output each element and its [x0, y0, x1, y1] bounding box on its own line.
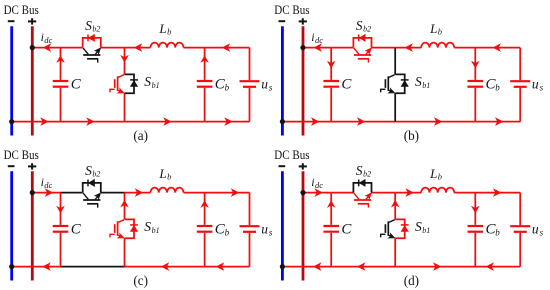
wire: bottom rail C junction to S_b1 junction (a): [61, 121, 125, 123]
label i_dc (c): [41, 175, 53, 190]
switch S_b1: anti-parallel diode loop (d): [395, 219, 408, 238]
label L_b (c): [158, 166, 171, 182]
inductor L_b (d): [421, 188, 454, 193]
current arrow on C_b branch (c): [200, 200, 209, 208]
switch S_b2: anti-parallel diode loop (c): [83, 180, 101, 193]
bus positive terminal mark (d): [299, 163, 307, 169]
svg-text:b1: b1: [422, 226, 430, 235]
current arrow on top rail (a): [134, 43, 143, 52]
svg-text:b: b: [438, 27, 442, 37]
label u_s (c): [261, 222, 273, 238]
voltage source u_s (b): [510, 81, 530, 87]
label S_b2 (d): [356, 163, 371, 179]
wire: top rail L_b to right corner through C_b junction (b): [454, 47, 520, 49]
wire: top rail C junction to S_b2 left corner (c): [61, 192, 83, 194]
svg-text:b: b: [167, 27, 171, 37]
current arrow on C branch (c): [56, 206, 65, 214]
capacitor C (c): [53, 193, 69, 267]
current arrow on C_b branch (b): [471, 61, 480, 69]
svg-text:b1: b1: [152, 81, 160, 90]
current arrow on bottom rail (c): [42, 262, 51, 271]
inductor L_b (a): [151, 43, 184, 48]
wire: bottom rail C junction to S_b1 junction (b): [331, 121, 395, 123]
wire: bottom rail C_b junction to right corner (d): [475, 266, 520, 268]
current arrow on top rail (b): [313, 43, 322, 52]
voltage source u_s (a): [240, 81, 260, 87]
svg-text:S: S: [144, 219, 151, 234]
wire: right vertical branch with u_s (a): [249, 48, 251, 122]
DC bus negative rail (c): [10, 171, 13, 280]
svg-text:DC Bus: DC Bus: [4, 148, 39, 162]
current arrow on top rail (a): [43, 43, 52, 52]
wire: top rail S_b1 junction to L_b (a): [125, 47, 151, 49]
svg-text:S: S: [356, 18, 363, 33]
label L_b (b): [429, 21, 442, 37]
bus negative terminal mark (c): [8, 165, 15, 167]
capacitor C (a): [53, 48, 69, 122]
wire: right vertical branch with u_s (c): [249, 193, 251, 267]
svg-text:s: s: [540, 228, 544, 238]
svg-text:C: C: [341, 221, 352, 237]
wire: bottom rail C_b junction to right corner (b): [475, 121, 520, 123]
bus positive terminal mark (b): [299, 18, 307, 24]
svg-text:u: u: [261, 77, 268, 92]
current arrow on bottom rail (d): [313, 262, 322, 271]
wire: bottom rail from negative bus node to C junction (a): [12, 121, 61, 123]
node: top rail tap on positive bus (d): [300, 190, 305, 195]
svg-text:b: b: [225, 227, 230, 237]
label C_b (b): [486, 76, 501, 92]
svg-text:s: s: [540, 83, 544, 93]
switch S_b1: IGBT symbol (c): [110, 220, 124, 238]
label S_b1 (d): [415, 219, 430, 235]
switch S_b1: anti-parallel diode loop (c): [125, 219, 138, 238]
capacitor C (b): [323, 48, 339, 122]
svg-text:S: S: [415, 219, 422, 234]
wire: top rail S_b1 junction to L_b (b): [395, 47, 421, 49]
svg-text:b: b: [495, 227, 500, 237]
DC bus positive rail (b): [302, 26, 305, 135]
svg-text:L: L: [429, 166, 437, 181]
current arrow on top rail (d): [314, 188, 323, 197]
DC bus negative rail (a): [10, 26, 13, 135]
svg-text:b2: b2: [363, 170, 371, 179]
wire: top rail from positive bus node to C junction (a): [32, 47, 60, 49]
svg-text:C: C: [71, 221, 82, 237]
current arrow on bottom rail (a): [86, 117, 95, 126]
svg-text:s: s: [269, 228, 273, 238]
wire: S_b1 branch (a): [124, 48, 126, 122]
wire: S_b1 branch (b): [394, 48, 396, 122]
svg-text:b1: b1: [422, 81, 430, 90]
label u_s (d): [532, 222, 544, 238]
label L_b (a): [158, 21, 171, 37]
svg-text:S: S: [85, 163, 92, 178]
wire: right vertical branch with u_s (d): [519, 193, 521, 267]
label i_dc (a): [41, 30, 53, 45]
current arrow on C_b branch (a): [200, 55, 209, 63]
svg-text:(c): (c): [133, 273, 148, 288]
svg-text:dc: dc: [315, 180, 323, 190]
DC bus positive rail (d): [302, 171, 305, 280]
switch S_b2: anti-parallel diode loop (a): [83, 35, 101, 48]
capacitor C_b (c): [197, 193, 213, 267]
svg-text:L: L: [158, 166, 166, 181]
label C_b (c): [215, 221, 230, 237]
switch S_b2: IGBT symbol (b): [354, 48, 372, 63]
current arrow on bottom rail (b): [311, 117, 320, 126]
wire: bottom rail S_b1 junction to C_b junction (a): [125, 121, 205, 123]
wire: top rail L_b to right corner through C_b junction (d): [454, 192, 520, 194]
label S_b2 (a): [85, 18, 100, 34]
wire: top rail C junction to S_b2 left corner (a): [61, 47, 83, 49]
current arrow on C branch (a): [56, 55, 65, 63]
svg-text:L: L: [429, 21, 437, 36]
wire: top rail from positive bus node to C junction (b): [303, 47, 331, 49]
current arrow on C branch (b): [327, 61, 336, 69]
DC bus negative rail (b): [281, 26, 284, 135]
current arrow on bottom rail (b): [495, 117, 504, 126]
current arrow on bottom rail (a): [40, 117, 49, 126]
capacitor C_b (a): [197, 48, 213, 122]
current arrow on bottom rail (c): [216, 262, 225, 271]
svg-text:S: S: [85, 18, 92, 33]
node: top rail tap on positive bus (b): [300, 45, 305, 50]
wire: S_b1 branch (d): [394, 193, 396, 267]
bus negative terminal mark (a): [8, 20, 15, 22]
wire: top rail L_b to right corner through C_b junction (a): [184, 47, 250, 49]
switch S_b1: anti-parallel diode loop (b): [395, 74, 408, 93]
capacitor C_b (b): [468, 48, 484, 122]
label C_b (d): [486, 221, 501, 237]
current arrow on top rail (c): [45, 188, 54, 197]
wire: bottom rail C junction to S_b1 junction (d): [331, 266, 395, 268]
svg-text:u: u: [532, 222, 539, 237]
svg-text:DC Bus: DC Bus: [4, 3, 39, 17]
svg-text:C: C: [341, 76, 352, 92]
capacitor C (d): [323, 193, 339, 267]
voltage source u_s (c): [240, 226, 260, 232]
current arrow on top rail (d): [493, 188, 502, 197]
switch S_b2: IGBT symbol (c): [83, 193, 101, 208]
inductor L_b (b): [421, 43, 454, 48]
svg-text:b: b: [167, 172, 171, 182]
svg-text:u: u: [532, 77, 539, 92]
current arrow on bottom rail (d): [357, 262, 366, 271]
current arrow on top rail (d): [405, 188, 414, 197]
label L_b (d): [429, 166, 442, 182]
svg-text:L: L: [158, 21, 166, 36]
switch S_b2: anti-parallel diode loop (d): [353, 180, 371, 193]
current arrow on bottom rail (c): [161, 262, 170, 271]
node: bottom rail tap on negative bus (b): [280, 119, 285, 124]
svg-text:b2: b2: [92, 170, 100, 179]
switch S_b1: IGBT symbol (b): [381, 75, 395, 93]
current arrow on top rail (b): [492, 43, 501, 52]
switch S_b1: anti-parallel diode loop (a): [125, 74, 138, 93]
current arrow on top rail (c): [231, 188, 240, 197]
label S_b1 (c): [144, 219, 159, 235]
wire: top rail from positive bus node to C junction (d): [303, 192, 331, 194]
svg-text:u: u: [261, 222, 268, 237]
switch S_b1: IGBT symbol (d): [381, 220, 395, 238]
svg-text:dc: dc: [44, 35, 52, 45]
svg-text:b: b: [438, 172, 442, 182]
svg-text:b: b: [225, 82, 230, 92]
svg-text:(a): (a): [133, 128, 148, 143]
bus positive terminal mark (c): [28, 163, 36, 169]
current arrow on top rail (b): [404, 43, 413, 52]
wire: top rail S_b2 right corner to S_b1 junction (c): [101, 192, 125, 194]
wire: bottom rail S_b1 junction to C_b junction (d): [395, 266, 475, 268]
wire: bottom rail from negative bus node to C junction (b): [282, 121, 331, 123]
svg-text:DC Bus: DC Bus: [274, 3, 309, 17]
bus negative terminal mark (d): [279, 165, 286, 167]
label u_s (b): [532, 77, 544, 93]
wire: right vertical branch with u_s (b): [519, 48, 521, 122]
label i_dc (d): [311, 175, 323, 190]
svg-text:S: S: [356, 163, 363, 178]
current arrow on C_b branch (d): [471, 206, 480, 214]
wire: bottom rail C_b junction to right corner (a): [205, 121, 250, 123]
switch S_b2: anti-parallel diode loop (b): [353, 35, 371, 48]
DC bus positive rail (a): [31, 26, 34, 135]
svg-text:(d): (d): [404, 273, 419, 288]
wire: top rail S_b2 right corner to S_b1 junction (b): [372, 47, 396, 49]
svg-text:dc: dc: [315, 35, 323, 45]
svg-text:C: C: [71, 76, 82, 92]
wire: top rail from positive bus node to C junction (c): [32, 192, 60, 194]
wire: top rail S_b1 junction to L_b (c): [125, 192, 151, 194]
wire: top rail C junction to S_b2 left corner (b): [331, 47, 353, 49]
switch S_b2: IGBT symbol (a): [83, 48, 101, 63]
node: top rail tap on positive bus (c): [30, 190, 35, 195]
capacitor C_b (d): [468, 193, 484, 267]
current arrow on top rail (c): [135, 188, 144, 197]
wire: bottom rail S_b1 junction to C_b junction (b): [395, 121, 475, 123]
bus negative terminal mark (b): [279, 20, 286, 22]
label i_dc (b): [311, 30, 323, 45]
node: bottom rail tap on negative bus (c): [9, 264, 14, 269]
wire: bottom rail C_b junction to right corner (c): [205, 266, 250, 268]
label S_b2 (c): [85, 163, 100, 179]
current arrow on bottom rail (d): [433, 262, 442, 271]
current arrow on bottom rail (a): [163, 117, 172, 126]
label u_s (a): [261, 77, 273, 93]
current arrow on top rail (a): [222, 43, 231, 52]
current arrow on bottom rail (d): [485, 262, 494, 271]
wire: top rail S_b2 right corner to S_b1 junction (d): [372, 192, 396, 194]
voltage source u_s (d): [510, 226, 530, 232]
switch S_b1: IGBT symbol (a): [110, 75, 124, 93]
svg-text:b2: b2: [92, 25, 100, 34]
current arrow on S_b1 branch (a): [120, 55, 129, 63]
current arrow on C branch (d): [327, 200, 336, 208]
svg-text:b1: b1: [152, 226, 160, 235]
current arrow on S_b1 branch (c): [120, 200, 129, 208]
label C_b (a): [215, 76, 230, 92]
svg-text:S: S: [415, 74, 422, 89]
svg-text:dc: dc: [44, 180, 52, 190]
wire: top rail L_b to right corner through C_b junction (c): [184, 192, 250, 194]
DC bus positive rail (c): [31, 171, 34, 280]
svg-text:(b): (b): [404, 128, 419, 143]
node: bottom rail tap on negative bus (a): [9, 119, 14, 124]
DC bus negative rail (d): [281, 171, 284, 280]
wire: top rail S_b1 junction to L_b (d): [395, 192, 421, 194]
svg-text:s: s: [269, 83, 273, 93]
node: top rail tap on positive bus (a): [30, 45, 35, 50]
wire: top rail C junction to S_b2 left corner (d): [331, 192, 353, 194]
svg-text:b: b: [495, 82, 500, 92]
current arrow on bottom rail (b): [357, 117, 366, 126]
wire: bottom rail from negative bus node to C junction (d): [282, 266, 331, 268]
current arrow on bottom rail (a): [224, 117, 233, 126]
node: bottom rail tap on negative bus (d): [280, 264, 285, 269]
label S_b2 (b): [356, 18, 371, 34]
svg-text:S: S: [144, 74, 151, 89]
wire: top rail S_b2 right corner to S_b1 junction (a): [101, 47, 125, 49]
wire: S_b1 branch (c): [124, 193, 126, 267]
label S_b1 (a): [144, 74, 159, 90]
current arrow on bottom rail (b): [434, 117, 443, 126]
wire: bottom rail S_b1 junction to C_b junction (c): [125, 266, 205, 268]
bus positive terminal mark (a): [28, 18, 36, 24]
switch S_b2: IGBT symbol (d): [354, 193, 372, 208]
wire: bottom rail C junction to S_b1 junction (c): [61, 266, 125, 268]
current arrow on S_b1 branch (d): [391, 200, 400, 208]
svg-text:DC Bus: DC Bus: [274, 148, 309, 162]
inductor L_b (c): [151, 188, 184, 193]
label S_b1 (b): [415, 74, 430, 90]
svg-text:b2: b2: [363, 25, 371, 34]
wire: bottom rail from negative bus node to C junction (c): [12, 266, 61, 268]
